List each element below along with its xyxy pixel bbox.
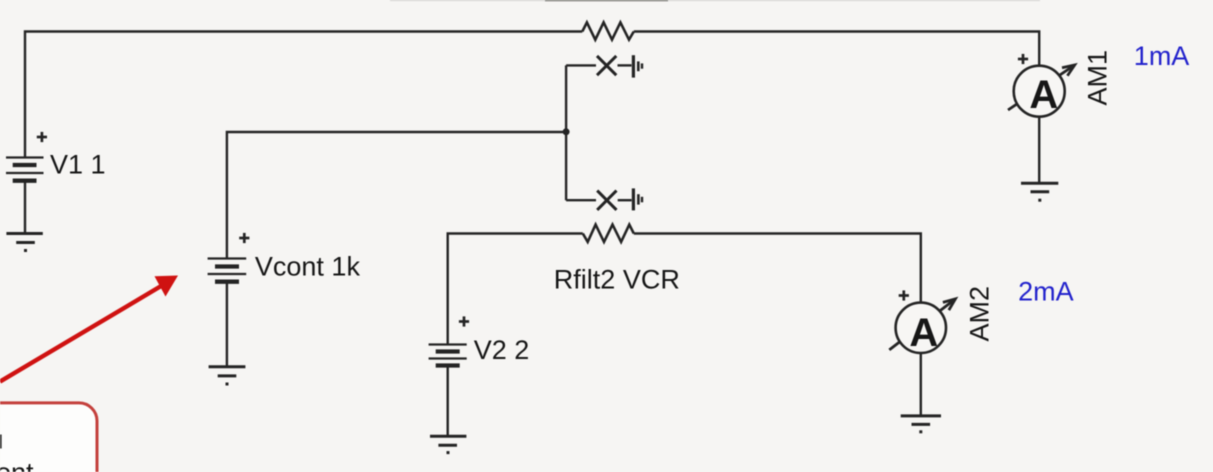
ammeter AM2 arrow [889, 299, 955, 350]
wire: V2 up and right to Rfilt2 [448, 234, 583, 345]
wire: R1 to AM1 [634, 32, 1039, 67]
svg-text:V2 2: V2 2 [474, 335, 530, 365]
svg-text:AM1: AM1 [1083, 50, 1113, 106]
plus mark AM2 [899, 290, 909, 300]
battery V1 [6, 158, 44, 181]
annotation callout box (red) [0, 403, 97, 472]
plus mark Vcont [239, 233, 249, 243]
svg-text:AM2: AM2 [965, 286, 995, 342]
annotation text fragment (letter ascender) [0, 435, 2, 449]
resistor Rfilt2 (VCR body) [583, 225, 634, 242]
VCR control terminal (upper) [566, 55, 642, 77]
svg-text:A: A [1029, 73, 1058, 117]
ground (AM2) [901, 416, 941, 432]
top edge video artifact [390, 0, 1040, 2]
plus mark V1 [37, 132, 47, 142]
svg-text:Rfilt2 VCR: Rfilt2 VCR [554, 264, 680, 294]
wire: Rfilt2 to AM2 [634, 234, 921, 304]
svg-text:1mA: 1mA [1134, 41, 1190, 71]
wire: V2 to ground [447, 366, 449, 436]
svg-text:V1 1: V1 1 [50, 150, 106, 180]
plus mark AM1 [1018, 54, 1028, 64]
wire: V1 plus terminal up and across top to R1 [25, 32, 582, 159]
battery Vcont [208, 259, 247, 282]
wire: Vcont to node A [227, 132, 566, 258]
wire: AM2 to ground [920, 353, 922, 415]
ground (V2) [430, 436, 466, 452]
svg-text:ont: ont [0, 458, 34, 472]
annotation arrow (red) [0, 276, 178, 382]
svg-text:2mA: 2mA [1018, 277, 1074, 307]
wire: AM1 to ground [1038, 117, 1040, 182]
battery V2 [429, 345, 467, 366]
ammeter AM2 body [896, 303, 946, 353]
svg-text:Vcont 1k: Vcont 1k [255, 252, 361, 282]
wire: control bus vertical [565, 65, 567, 200]
svg-text:A: A [909, 311, 938, 355]
ground (Vcont) [209, 367, 246, 384]
wire: V1 to ground [24, 181, 26, 233]
ammeter AM1 arrow [1008, 65, 1075, 110]
resistor R1 (top VCR body) [582, 22, 634, 39]
ammeter AM1 body [1014, 66, 1065, 117]
wire: Vcont to ground [226, 282, 228, 366]
ground (V1) [6, 234, 42, 251]
ground (AM1) [1021, 183, 1058, 200]
plus mark V2 [459, 316, 469, 326]
junction node A [563, 128, 570, 135]
VCR control terminal (lower) [566, 188, 642, 210]
